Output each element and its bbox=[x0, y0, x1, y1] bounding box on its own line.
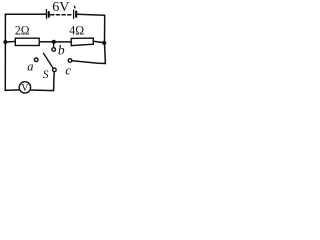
junction dot right (right wire / middle row) bbox=[102, 41, 106, 45]
svg-text:c: c bbox=[65, 63, 71, 78]
wire left side bbox=[4, 14, 6, 90]
switch S blade bbox=[44, 53, 53, 68]
wire right side lower bbox=[104, 43, 107, 64]
wire middle row left lead bbox=[5, 41, 15, 44]
wire between R1 and node b bbox=[39, 41, 54, 43]
battery dashed middle (omitted cells) bbox=[51, 14, 72, 16]
svg-text:4Ω: 4Ω bbox=[69, 22, 84, 37]
junction dot node b on middle row bbox=[52, 40, 56, 44]
terminal b circle bbox=[52, 48, 56, 52]
wire bottom right of voltmeter bbox=[30, 89, 53, 92]
svg-text:V: V bbox=[21, 83, 29, 94]
switch S stem wire to bottom bbox=[53, 72, 56, 90]
wire top-right segment bbox=[77, 13, 105, 16]
wire top-left segment bbox=[5, 14, 46, 16]
terminal c circle bbox=[68, 59, 72, 63]
battery 6V right cell long plate bbox=[73, 10, 75, 18]
wire right side upper bbox=[104, 15, 106, 43]
node b stub wire bbox=[53, 42, 55, 47]
resistor R1 2Ω box bbox=[15, 38, 39, 45]
svg-text:6V: 6V bbox=[52, 0, 69, 15]
junction dot left (left wire / middle row) bbox=[3, 40, 7, 44]
wire from right side to terminal c bbox=[72, 61, 105, 64]
speck above battery right plate bbox=[73, 6, 76, 8]
voltmeter V bbox=[19, 82, 30, 94]
svg-text:2Ω: 2Ω bbox=[15, 22, 30, 37]
battery 6V left cell long plate bbox=[46, 10, 48, 19]
wire bottom left of voltmeter bbox=[5, 89, 19, 92]
svg-text:b: b bbox=[58, 43, 65, 58]
svg-text:S: S bbox=[43, 69, 49, 81]
battery 6V left cell short plate bbox=[48, 12, 50, 17]
wire middle row right lead bbox=[93, 41, 104, 43]
switch S pivot circle bbox=[53, 68, 57, 72]
wire between node b and R2 bbox=[54, 41, 71, 43]
battery 6V right cell short plate bbox=[75, 12, 77, 17]
svg-text:a: a bbox=[27, 60, 33, 74]
terminal a circle bbox=[34, 58, 38, 62]
resistor R2 4Ω box bbox=[71, 38, 93, 46]
